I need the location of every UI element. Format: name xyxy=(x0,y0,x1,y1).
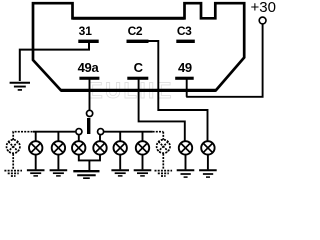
svg-text:C3: C3 xyxy=(177,24,192,38)
svg-text:49a: 49a xyxy=(78,60,100,75)
svg-text:31: 31 xyxy=(79,24,93,38)
svg-text:+30: +30 xyxy=(250,0,275,16)
svg-text:49: 49 xyxy=(178,60,192,75)
svg-text:C2: C2 xyxy=(128,24,143,38)
svg-text:C: C xyxy=(134,60,144,75)
